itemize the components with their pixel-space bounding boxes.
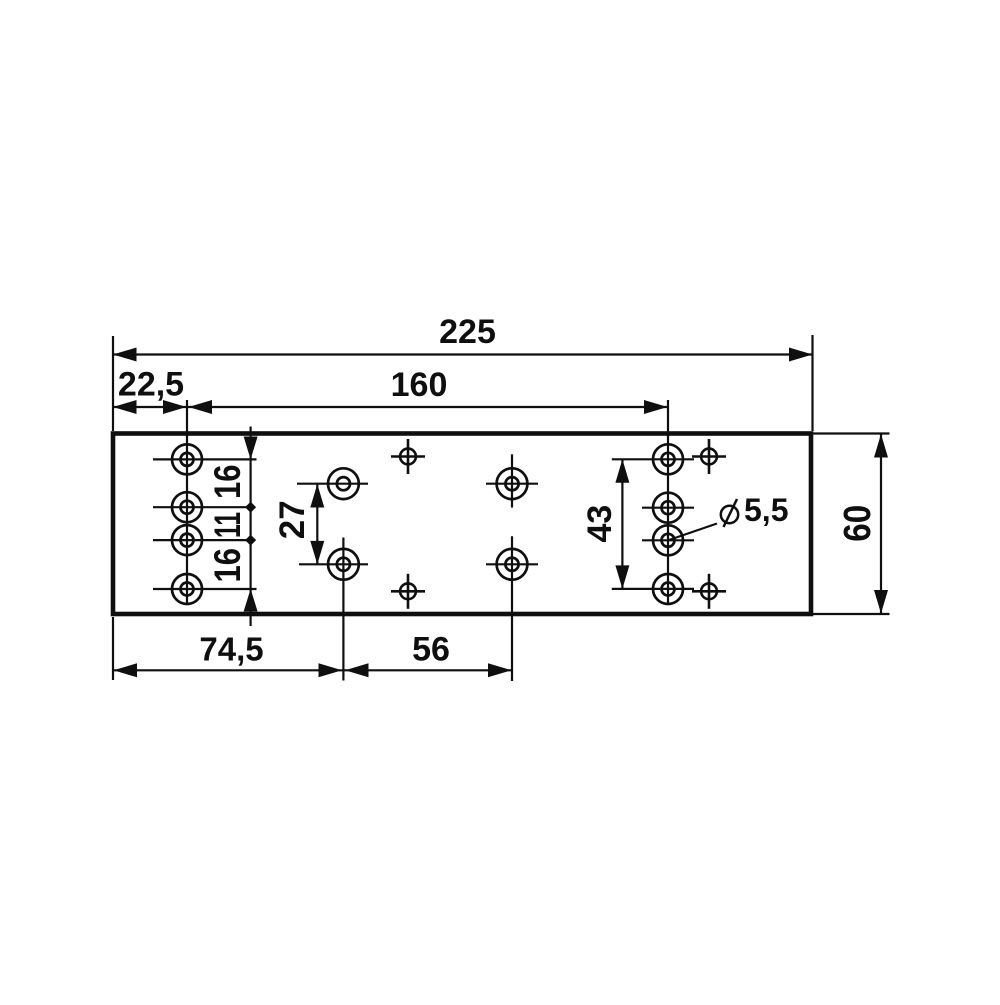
arrow chain up (tip at row4)	[244, 589, 258, 612]
extension line right (x=812.5, top)	[811, 335, 813, 431]
svg-text:22,5: 22,5	[118, 366, 184, 404]
svg-text:5,5: 5,5	[744, 492, 788, 528]
leader line diameter 5,5	[669, 524, 717, 541]
crosshair row2 left column	[153, 506, 251, 508]
extension line left (x=113, top)	[112, 336, 114, 431]
centerline mid-right hole column (lower hole)	[511, 536, 513, 681]
arrow 43 up	[615, 459, 629, 483]
tick line row1 right column	[612, 458, 694, 460]
small hole S4 (bottom-right)	[692, 574, 726, 609]
arrow 225 right	[789, 348, 813, 362]
plate outline	[113, 434, 811, 615]
svg-text:56: 56	[412, 631, 450, 669]
arrow 22,5 right (bowtie left half)	[163, 400, 187, 414]
dimension line 74,5 / 56	[113, 669, 512, 671]
arrow 56 left (bowtie right half)	[345, 663, 369, 677]
diameter symbol	[721, 499, 738, 527]
chain dimension line 16/11/16	[250, 427, 252, 627]
extension line bottom-left (x=113)	[112, 617, 114, 680]
arrow chain down (tip at row1)	[244, 437, 258, 460]
diamond tick row3	[245, 535, 256, 546]
arrow 27 down	[310, 541, 324, 565]
arrow 43 down	[615, 565, 629, 589]
arrow 60 bottom	[874, 590, 888, 614]
dimension line 43	[621, 459, 623, 589]
centerline right hole column	[667, 400, 669, 605]
crosshair vertical mid-right top hole	[511, 454, 513, 507]
crosshair mid-right top hole	[486, 483, 538, 485]
small hole S2 (top-right)	[692, 439, 726, 474]
arrow 160 left (bowtie right half)	[189, 400, 213, 414]
dimension line 225	[113, 353, 813, 355]
svg-text:225: 225	[439, 313, 496, 351]
hole M4 (mid-right bottom)	[497, 549, 528, 580]
dimension line 22,5 / 160	[113, 406, 668, 408]
hole R3	[653, 525, 683, 555]
tick line row4 right column	[612, 588, 694, 590]
small hole S1 (top-left)	[391, 439, 425, 474]
extension line 60 bottom	[813, 613, 890, 615]
dimension line 60	[880, 434, 882, 615]
hole R2	[653, 493, 683, 523]
arrow 60 top	[874, 434, 888, 458]
crosshair mid-right bottom hole	[486, 563, 538, 565]
svg-text:60: 60	[837, 505, 879, 542]
arrow 160 right	[644, 400, 668, 414]
arrow 27 up	[310, 484, 324, 508]
small hole S3 (bottom-left)	[391, 574, 425, 609]
hole M3 (mid-right top)	[497, 468, 528, 499]
hole L1	[172, 444, 202, 474]
crosshair row2 right column	[642, 507, 694, 509]
arrow 74,5 left	[114, 663, 138, 677]
crosshair row3 right column	[642, 539, 694, 541]
dimension line 27	[316, 484, 318, 564]
arrow 22,5 left	[113, 400, 137, 414]
hole M2 (mid-left bottom)	[328, 549, 359, 580]
extension line 60 top	[813, 432, 890, 434]
tick line mid bottom row	[299, 563, 368, 565]
svg-text:11: 11	[207, 512, 248, 538]
centerline mid-left hole column (lower hole only)	[342, 538, 344, 681]
centerline left hole column	[186, 400, 188, 604]
hole L2	[172, 492, 202, 522]
hole R1	[653, 444, 683, 474]
tick line row4 left column	[153, 588, 257, 590]
svg-text:16: 16	[207, 548, 248, 583]
svg-text:16: 16	[207, 465, 248, 500]
svg-text:160: 160	[391, 366, 448, 404]
diamond tick row2	[245, 502, 256, 513]
arrow 56 right	[488, 663, 512, 677]
tick line row1 left column	[153, 458, 257, 460]
hole R4	[653, 574, 683, 604]
hole L3	[172, 525, 202, 555]
svg-text:27: 27	[273, 500, 312, 539]
hole L4	[172, 574, 202, 604]
svg-text:43: 43	[581, 505, 619, 543]
tick line mid top row	[297, 483, 368, 485]
crosshair row3 left column	[153, 539, 251, 541]
hole M1 (mid-left top)	[328, 468, 359, 499]
arrow 74,5 right (bowtie left half)	[319, 663, 343, 677]
arrow 225 left	[113, 348, 137, 362]
svg-text:74,5: 74,5	[199, 631, 263, 668]
